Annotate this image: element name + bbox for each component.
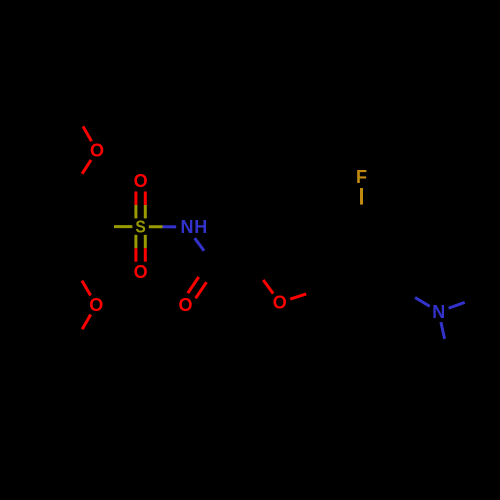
bond CH3-O (bottom methoxy) xyxy=(74,315,91,345)
ring A bond C1=C2 (carbon, invisible on black) xyxy=(73,188,96,227)
ring A bond C3=C4 (carbon, invisible on black) xyxy=(6,188,29,227)
bond CH3-O (top methoxy) xyxy=(75,112,92,142)
furan bond C2=C3 (carbon, invisible on black) xyxy=(253,230,280,266)
bond C1-S xyxy=(96,225,133,228)
bond N-CH3 (right) xyxy=(449,297,481,309)
bond O1-C2 (furan) xyxy=(253,266,273,294)
svg-text:O: O xyxy=(90,141,104,161)
bond N-CH3 (down) xyxy=(441,322,448,356)
bond C4-F xyxy=(360,188,363,221)
ring B bond C4-C5 (carbon, invisible on black) xyxy=(362,221,401,244)
double bond S=O (upper) xyxy=(136,192,145,219)
furan bond C3-C3a (carbon, invisible on black) xyxy=(280,230,323,244)
svg-text:N: N xyxy=(432,302,445,322)
ring B bond C5=C6 (carbon, invisible on black) xyxy=(399,244,402,289)
bond N-C(=O) xyxy=(195,238,214,263)
ring B bond C6-C7 (carbon, invisible on black) xyxy=(362,289,401,312)
svg-text:O: O xyxy=(89,295,103,315)
ring A bond C6-C1 (carbon, invisible on black) xyxy=(73,227,96,266)
svg-text:O: O xyxy=(134,262,148,282)
svg-text:O: O xyxy=(178,295,192,315)
svg-text:O: O xyxy=(273,293,287,313)
bond C(=O)-C2 benzofuran xyxy=(214,264,254,267)
ring A bond C4-C5 (carbon, invisible on black) xyxy=(6,227,29,266)
ring B bond C7=C7a (carbon, invisible on black) xyxy=(323,289,362,312)
svg-text:S: S xyxy=(135,216,145,236)
double bond C=O (amide) xyxy=(188,261,218,298)
svg-text:NH: NH xyxy=(181,217,209,237)
bond O1-C7a (furan) xyxy=(290,289,322,300)
bond O-C2 (top methoxy to ring A) xyxy=(73,160,91,188)
ring B bond C7a-C3a (carbon, invisible on black) xyxy=(321,244,324,289)
bond C6-N(CH3)2 xyxy=(401,289,430,307)
ring A bond C5=C6 (carbon, invisible on black) xyxy=(28,264,73,267)
double bond S=O (lower) xyxy=(136,235,145,262)
bond O-C6 (bottom methoxy to ring A) xyxy=(73,266,91,296)
ring A bond C2-C3 (carbon, invisible on black) xyxy=(28,186,73,189)
bond S-N xyxy=(149,225,176,228)
svg-text:F: F xyxy=(356,167,367,187)
svg-text:O: O xyxy=(134,171,148,191)
ring B bond C3a=C4 (carbon, invisible on black) xyxy=(323,221,362,244)
